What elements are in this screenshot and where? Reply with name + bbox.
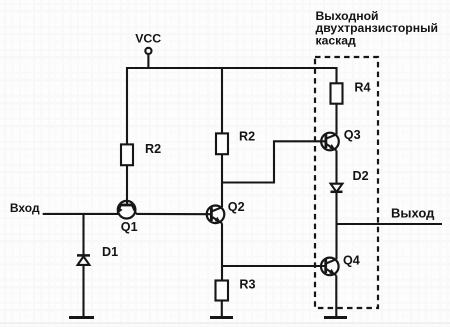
ground (R3) xyxy=(210,316,233,319)
svg-text:R2: R2 xyxy=(239,129,255,143)
diode D1 xyxy=(77,255,90,265)
svg-text:D1: D1 xyxy=(102,245,118,259)
resistor R2 (right) xyxy=(216,133,228,154)
svg-text:R4: R4 xyxy=(354,81,370,95)
svg-text:VCC: VCC xyxy=(135,32,161,46)
wire R2b to Q2 collector xyxy=(221,154,223,207)
wire R2a to Q1 base xyxy=(126,165,128,205)
VCC terminal xyxy=(145,48,151,54)
svg-text:Q3: Q3 xyxy=(344,128,361,142)
ground (Q4 emitter) xyxy=(324,316,347,319)
wire Q4 emitter to ground xyxy=(335,275,337,317)
wire output xyxy=(337,223,443,225)
transistor Q1 xyxy=(117,201,136,219)
svg-text:D2: D2 xyxy=(353,169,369,183)
dashed enclosure: output two-transistor stage xyxy=(315,57,378,308)
wire input to Q1 xyxy=(43,213,118,215)
svg-text:R2: R2 xyxy=(145,142,161,156)
resistor R4 xyxy=(331,83,343,103)
svg-text:Q1: Q1 xyxy=(121,220,138,234)
wire top VCC bus xyxy=(127,67,337,69)
ground (input clamp) xyxy=(69,316,94,319)
wire Q1 to Q2 base xyxy=(136,213,211,215)
wire D2 to Q4 collector (through output node) xyxy=(335,192,337,259)
wire top bus to R2b xyxy=(221,67,223,133)
svg-text:Q4: Q4 xyxy=(343,254,360,268)
transistor Q4 xyxy=(321,258,339,276)
transistor Q3 xyxy=(321,133,339,151)
wire R3 to ground xyxy=(221,301,223,318)
wire bus corner to R4 xyxy=(335,67,337,83)
resistor R3 xyxy=(216,281,229,301)
svg-text:каскад: каскад xyxy=(316,34,357,48)
scan band artifact (bottom) xyxy=(0,322,450,324)
wire Q2 emitter down xyxy=(221,223,223,266)
wire Q2 collector tap to Q3 base (step) xyxy=(222,141,326,182)
wire Q3 emitter to D2 xyxy=(335,151,337,184)
wire Q2 emitter to Q4 base xyxy=(222,265,326,267)
svg-text:Выход: Выход xyxy=(391,205,435,220)
svg-text:R3: R3 xyxy=(239,277,255,291)
wire input junction down to D1 xyxy=(82,214,84,256)
transistor Q2 xyxy=(207,206,225,224)
wire Q2 emitter junction to R3 xyxy=(221,266,223,281)
wire VCC stub xyxy=(147,54,149,68)
svg-text:Q2: Q2 xyxy=(228,200,245,214)
svg-text:Вход: Вход xyxy=(10,201,40,215)
wire D1 to ground xyxy=(82,265,84,318)
wire R4 to Q3 collector xyxy=(335,104,337,135)
resistor R2 (left) xyxy=(121,144,133,165)
caption: output stage title xyxy=(316,9,438,48)
wire left column to R2a xyxy=(126,67,128,144)
diode D2 xyxy=(331,184,343,192)
